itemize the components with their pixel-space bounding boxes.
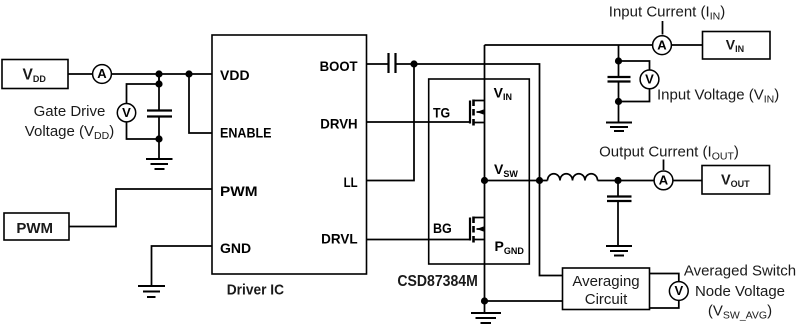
svg-text:Averaged Switch: Averaged Switch [684, 263, 796, 280]
node VSW junction at rail [481, 177, 488, 184]
transistor Q1 high-side [470, 100, 485, 126]
node junction voltmeter bottom tee [155, 135, 162, 142]
ground G5 pgnd [471, 301, 501, 323]
wire VIN rail top [485, 44, 653, 46]
voltmeter V1 [117, 104, 135, 122]
svg-text:Gate Drive: Gate Drive [34, 103, 106, 120]
inductor L1 [540, 174, 619, 181]
wire to ammeter A3 [618, 180, 654, 182]
wire enable branch [189, 74, 212, 133]
driver IC U1 [212, 35, 367, 274]
svg-text:GND: GND [220, 240, 251, 256]
source box PWM [4, 213, 69, 240]
svg-text:VDD: VDD [220, 67, 250, 83]
wire input voltmeter bottom [619, 90, 650, 102]
capacitor C2 bootstrap [389, 53, 396, 73]
svg-text:V: V [645, 72, 654, 87]
svg-text:V: V [674, 283, 683, 298]
wire A1 to VDD pin [111, 73, 212, 75]
wire averaging to voltmeter V3 top [650, 274, 679, 282]
svg-text:VIN: VIN [726, 37, 744, 55]
node boot junction [410, 60, 417, 67]
block Averaging Circuit [563, 268, 650, 310]
svg-text:Input Voltage (VIN): Input Voltage (VIN) [657, 87, 779, 106]
node junction on VDD wire (enable branch) [185, 70, 192, 77]
capacitor C3 input [608, 61, 631, 123]
ground G3 input [606, 123, 632, 132]
svg-text:Input Current (IIN): Input Current (IIN) [609, 4, 725, 23]
capacitor C4 output [607, 181, 632, 247]
wire BOOT to capacitor C2 [367, 63, 389, 65]
svg-text:V: V [122, 105, 131, 120]
wire input cap branch [618, 45, 620, 61]
wire input voltmeter branch [619, 61, 650, 70]
svg-text:PWM: PWM [220, 183, 258, 199]
wire VDD box to ammeter A1 [68, 73, 93, 75]
leader line input current [662, 21, 664, 35]
svg-text:TG: TG [433, 105, 450, 121]
svg-text:DRVH: DRVH [320, 116, 357, 132]
ammeter A2 input [653, 36, 672, 55]
wire A2 to VIN box [671, 44, 702, 46]
svg-text:A: A [657, 37, 667, 52]
transistor Q2 low-side [470, 217, 485, 243]
svg-text:A: A [659, 173, 669, 188]
svg-text:ENABLE: ENABLE [220, 124, 272, 140]
wire VSW [485, 180, 540, 182]
ammeter A3 output [654, 171, 673, 190]
voltmeter V3 averaged [669, 282, 688, 301]
node junction on VDD wire (cap branch) [155, 70, 162, 77]
svg-text:Voltage (VDD): Voltage (VDD) [25, 123, 114, 142]
node VSW junction at boot drop [536, 177, 543, 184]
svg-text:DRVL: DRVL [321, 231, 358, 247]
wire boot node to switch node drop [414, 64, 540, 181]
svg-text:(VSW_AVG): (VSW_AVG) [708, 303, 772, 322]
capacitor C1 upper stem [158, 74, 160, 111]
svg-text:Circuit: Circuit [585, 291, 628, 308]
svg-text:LL: LL [344, 174, 358, 190]
svg-text:BOOT: BOOT [320, 58, 358, 74]
wire voltmeter branch top [127, 74, 160, 104]
svg-text:VSW: VSW [494, 161, 518, 179]
wire DRVL to BG gate [367, 239, 471, 241]
svg-text:Averaging: Averaging [572, 273, 639, 290]
wire averaging to voltmeter V3 bottom [650, 300, 679, 308]
wire FET rail VIN to PGND [484, 45, 486, 301]
svg-text:VOUT: VOUT [721, 173, 750, 190]
wire PGND to averaging circuit [485, 300, 563, 302]
source box VDD [2, 60, 68, 89]
wire GND pin to ground [152, 246, 213, 286]
power block CSD87384M [429, 79, 530, 264]
wire C2 to boot node [396, 63, 415, 65]
wire VSW to averaging circuit [540, 181, 563, 276]
svg-text:PGND: PGND [495, 238, 525, 256]
node junction voltmeter top tee [155, 80, 162, 87]
ground G4 output [606, 246, 632, 256]
ammeter A1 [93, 65, 112, 84]
ground G1 [146, 159, 173, 169]
wire DRVH to TG gate [367, 121, 471, 123]
source box VIN [703, 32, 771, 60]
svg-text:VDD: VDD [23, 67, 47, 85]
node input voltmeter top tee [615, 57, 622, 64]
node input voltmeter bottom tee [615, 98, 622, 105]
wire A3 to VOUT box [673, 180, 702, 182]
node output cap junction [614, 177, 621, 184]
label Averaged Switch Node Voltage [684, 263, 796, 322]
svg-text:Driver IC: Driver IC [227, 281, 284, 298]
node PGND junction [481, 297, 488, 304]
label Gate Drive Voltage (VDD) [25, 103, 114, 142]
wire voltmeter branch bottom [127, 123, 160, 140]
capacitor C1 lower stem [158, 117, 160, 160]
capacitor C1 [147, 111, 172, 117]
svg-text:BG: BG [433, 220, 452, 236]
voltmeter V2 input [640, 70, 659, 89]
svg-text:VIN: VIN [494, 84, 512, 102]
ground G2 [138, 286, 165, 297]
wire LL to boot node [367, 64, 415, 181]
svg-text:CSD87384M: CSD87384M [397, 273, 478, 290]
source box VOUT [702, 166, 770, 195]
svg-text:Output Current (IOUT): Output Current (IOUT) [599, 144, 739, 163]
wire PWM box to PWM pin [69, 189, 212, 227]
svg-text:PWM: PWM [16, 220, 53, 237]
leader line output current [663, 160, 665, 171]
svg-text:Node Voltage: Node Voltage [695, 283, 785, 300]
svg-text:A: A [97, 66, 107, 81]
